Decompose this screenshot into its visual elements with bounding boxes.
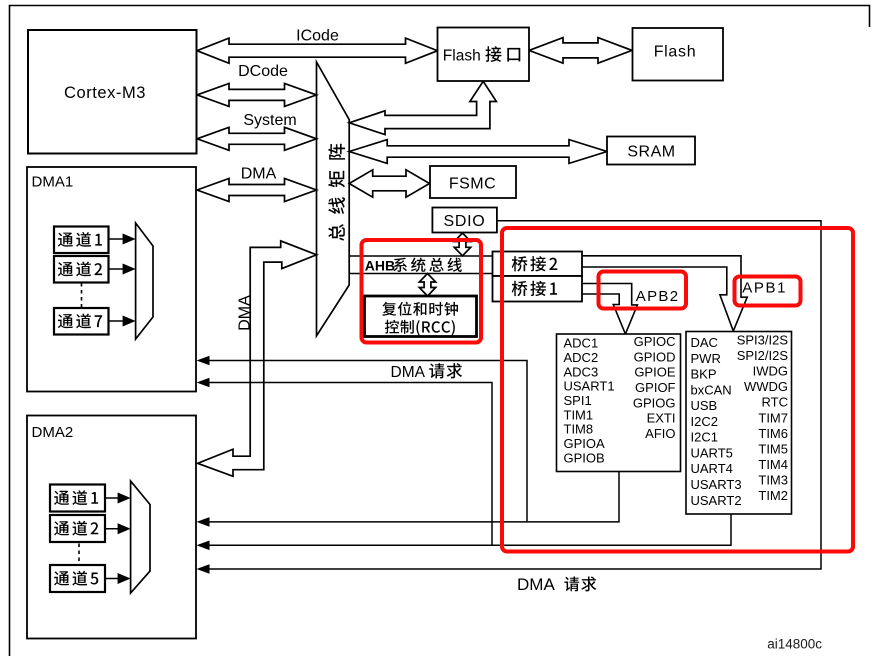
svg-text:GPIOD: GPIOD [634, 349, 676, 364]
svg-text:TIM6: TIM6 [758, 426, 788, 441]
svg-text:ai14800c: ai14800c [767, 637, 822, 652]
svg-text:DMA: DMA [241, 166, 277, 183]
svg-text:SDIO: SDIO [444, 213, 486, 230]
svg-text:I2C2: I2C2 [691, 414, 718, 429]
svg-text:GPIOG: GPIOG [633, 395, 676, 410]
svg-text:GPIOB: GPIOB [564, 450, 605, 465]
svg-text:UART5: UART5 [691, 445, 733, 460]
svg-text:SRAM: SRAM [627, 144, 675, 161]
svg-text:WWDG: WWDG [744, 379, 788, 394]
svg-text:DMA: DMA [517, 575, 555, 594]
svg-text:ADC3: ADC3 [564, 364, 599, 379]
svg-text:I2C1: I2C1 [691, 430, 718, 445]
svg-text:RTC: RTC [762, 395, 788, 410]
svg-text:DMA1: DMA1 [32, 173, 74, 190]
svg-text:bxCAN: bxCAN [691, 382, 732, 397]
svg-text:USART3: USART3 [691, 477, 742, 492]
svg-text:FSMC: FSMC [449, 176, 496, 193]
svg-text:TIM4: TIM4 [758, 457, 788, 472]
svg-text:TIM3: TIM3 [758, 472, 788, 487]
svg-text:Flash: Flash [443, 48, 481, 65]
svg-text:TIM7: TIM7 [758, 410, 788, 425]
svg-text:APB1: APB1 [742, 279, 787, 296]
svg-text:EXTI: EXTI [647, 411, 676, 426]
svg-text:System: System [243, 112, 296, 129]
svg-text:TIM1: TIM1 [564, 407, 594, 422]
svg-text:DCode: DCode [238, 63, 288, 80]
svg-text:DMA: DMA [237, 295, 254, 331]
svg-text:ICode: ICode [296, 28, 339, 45]
svg-text:DMA2: DMA2 [32, 424, 74, 441]
svg-text:DMA: DMA [391, 364, 426, 381]
svg-text:Cortex-M3: Cortex-M3 [64, 84, 146, 102]
svg-text:AHB: AHB [365, 258, 395, 274]
svg-text:GPIOE: GPIOE [634, 365, 676, 380]
svg-text:AFIO: AFIO [645, 426, 675, 441]
svg-text:SPI1: SPI1 [564, 393, 592, 408]
svg-text:SPI3/I2S: SPI3/I2S [737, 333, 789, 348]
svg-text:GPIOF: GPIOF [635, 380, 676, 395]
svg-text:IWDG: IWDG [753, 364, 788, 379]
svg-text:PWR: PWR [691, 351, 721, 366]
svg-text:ADC2: ADC2 [564, 350, 599, 365]
svg-text:TIM5: TIM5 [758, 441, 788, 456]
svg-text:USB: USB [691, 398, 718, 413]
svg-text:TIM8: TIM8 [564, 422, 594, 437]
svg-text:USART1: USART1 [564, 379, 615, 394]
svg-text:DAC: DAC [691, 335, 718, 350]
svg-text:ADC1: ADC1 [564, 336, 599, 351]
svg-text:GPIOA: GPIOA [564, 436, 606, 451]
svg-text:APB2: APB2 [636, 288, 680, 305]
svg-text:USART2: USART2 [691, 493, 742, 508]
svg-text:BKP: BKP [691, 367, 717, 382]
svg-text:GPIOC: GPIOC [634, 334, 676, 349]
svg-text:UART4: UART4 [691, 461, 733, 476]
svg-text:TIM2: TIM2 [758, 488, 788, 503]
svg-text:Flash: Flash [654, 44, 697, 61]
svg-text:SPI2/I2S: SPI2/I2S [737, 348, 789, 363]
